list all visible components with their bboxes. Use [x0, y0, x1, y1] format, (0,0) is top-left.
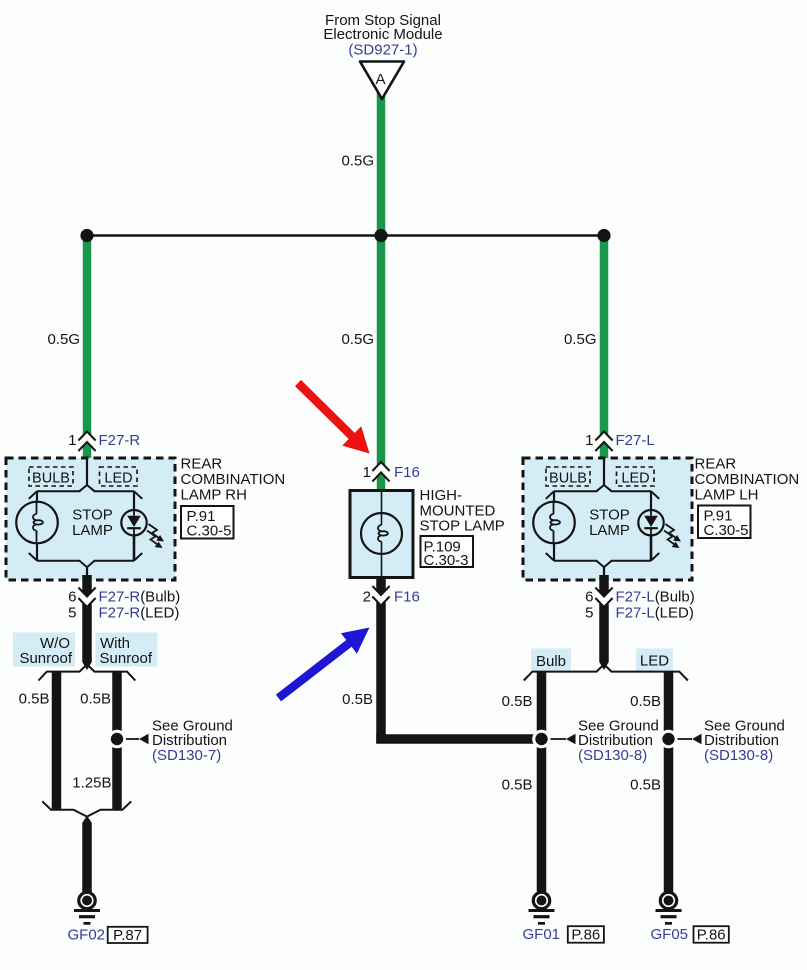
svg-text:BULB: BULB	[549, 471, 587, 487]
svg-text:1: 1	[363, 464, 371, 481]
svg-text:0.5B: 0.5B	[80, 691, 111, 708]
option box LED (RH)	[100, 467, 138, 486]
component box: REAR COMBINATION LAMP RH (dashed)	[6, 458, 175, 580]
connector pin 2 of F16 (chevron symbol)	[372, 586, 389, 606]
wire: thin join outline (RH ground merge)	[42, 801, 131, 816]
svg-text:C.30-5: C.30-5	[704, 522, 749, 539]
callout arrow to ground distribution SD130-8 (led)	[678, 734, 702, 744]
wire: entry lead inside lamp RH	[86, 459, 88, 485]
wire: led branch lower lead (LH)	[650, 535, 653, 560]
wire: 0.5B black output of lamp LH	[599, 575, 609, 662]
option box BULB (RH)	[29, 467, 73, 486]
wire: bulb branch lower lead (LH)	[553, 543, 555, 561]
label: From Stop Signal Electronic Module	[323, 12, 442, 59]
svg-text:0.5B: 0.5B	[502, 693, 533, 710]
svg-text:(SD130-7): (SD130-7)	[152, 747, 221, 764]
wire: 0.5B black output of lamp RH	[82, 575, 92, 662]
svg-text:REAR: REAR	[181, 456, 223, 473]
wire: 0.5G green feed from module triangle down to bus	[377, 92, 386, 491]
svg-text:F27-L(Bulb): F27-L(Bulb)	[616, 589, 695, 606]
svg-text:0.5G: 0.5G	[341, 153, 374, 170]
option label Bulb	[531, 649, 571, 671]
wire: internal split to bulb and led branches (LH)	[546, 485, 659, 499]
svg-text:LAMP: LAMP	[72, 522, 113, 539]
wire: internal join of bulb and led branches (RH)	[29, 553, 142, 567]
svg-text:Electronic Module: Electronic Module	[323, 26, 442, 43]
svg-text:F27-L(LED): F27-L(LED)	[616, 605, 694, 622]
wire: entry lead inside lamp LH	[603, 459, 605, 485]
wire: exit lead lamp RH	[86, 567, 88, 576]
svg-text:REAR: REAR	[695, 456, 737, 473]
svg-text:C.30-5: C.30-5	[187, 523, 232, 540]
ground GF02	[74, 892, 100, 924]
svg-text:F27-R(LED): F27-R(LED)	[99, 605, 180, 622]
svg-text:GF02: GF02	[67, 927, 105, 944]
blue callout arrow pointing to 0.5B wire	[276, 628, 370, 702]
wire: 0.5B black output of high-mounted stop lamp	[376, 578, 386, 744]
label: See Ground Distribution (SD130-7)	[152, 718, 233, 765]
svg-text:COMBINATION: COMBINATION	[695, 471, 800, 488]
wire: merged ground wire tip	[82, 816, 92, 824]
LED light emission arrows (RH)	[147, 524, 164, 548]
reference box P.86 (GF01)	[568, 926, 604, 943]
svg-text:LED: LED	[640, 653, 669, 670]
svg-text:LAMP: LAMP	[589, 522, 630, 539]
svg-text:F27-R(Bulb): F27-R(Bulb)	[99, 589, 181, 606]
reference box P.91 C.30-5 (LH)	[698, 506, 751, 540]
svg-text:0.5B: 0.5B	[342, 691, 373, 708]
wire: 0.5G green, bus to rear combination lamp RH	[83, 236, 92, 460]
reference box P.86 (GF05)	[694, 926, 729, 943]
node: bus junction right	[597, 229, 610, 242]
svg-text:COMBINATION: COMBINATION	[181, 471, 286, 488]
red callout arrow pointing to pin 1 F16	[295, 380, 370, 454]
svg-text:LAMP LH: LAMP LH	[695, 487, 759, 504]
wire: horizontal bus distributing stop signal	[87, 234, 604, 236]
wire: ground lead to GF02	[82, 823, 92, 893]
LED element (LH stop lamp)	[638, 510, 663, 535]
svg-text:1.25B: 1.25B	[72, 775, 111, 792]
wire: internal lead through high-mounted stop lamp	[381, 492, 383, 525]
bulb lamp element (high-mounted stop lamp)	[361, 513, 402, 554]
wire: 0.5B w/o sunroof branch	[52, 672, 62, 810]
svg-text:GF01: GF01	[522, 926, 560, 943]
svg-text:1: 1	[68, 432, 76, 449]
svg-text:P.87: P.87	[113, 927, 142, 944]
node: ground distribution tap (bulb branch)	[532, 730, 551, 749]
svg-text:LED: LED	[104, 471, 132, 487]
reference box P.87	[108, 927, 148, 944]
svg-text:0.5G: 0.5G	[564, 331, 597, 348]
wire: bulb branch lower lead (RH)	[36, 543, 38, 561]
svg-text:0.5G: 0.5G	[341, 331, 374, 348]
node: bus junction middle	[374, 229, 387, 242]
svg-text:F27-L: F27-L	[616, 432, 655, 449]
svg-text:LAMP RH: LAMP RH	[181, 487, 247, 504]
bulb lamp element (LH stop lamp)	[533, 502, 575, 544]
callout arrow to ground distribution SD130-7	[126, 734, 149, 744]
svg-text:STOP LAMP: STOP LAMP	[420, 518, 505, 535]
svg-text:Sunroof: Sunroof	[100, 650, 153, 667]
svg-text:P.86: P.86	[697, 927, 726, 944]
connector pin 1 of F27-L (chevron symbol)	[595, 432, 612, 452]
reference box P.91 C.30-5 (RH)	[181, 506, 234, 540]
svg-text:0.5G: 0.5G	[47, 331, 80, 348]
svg-text:LED: LED	[621, 471, 649, 487]
svg-text:5: 5	[585, 605, 593, 622]
svg-text:STOP: STOP	[589, 507, 630, 524]
label: See Ground Distribution (SD130-8) bulb	[578, 718, 659, 765]
label: REAR COMBINATION LAMP RH	[181, 456, 286, 504]
svg-text:(SD927-1): (SD927-1)	[348, 42, 417, 59]
svg-text:(SD130-8): (SD130-8)	[578, 747, 647, 764]
svg-text:5: 5	[68, 605, 76, 622]
svg-text:0.5B: 0.5B	[630, 693, 661, 710]
wire: led branch lower lead (RH)	[133, 535, 136, 560]
svg-text:1: 1	[585, 432, 593, 449]
svg-text:0.5B: 0.5B	[630, 777, 661, 794]
svg-text:6: 6	[68, 589, 76, 606]
wire: led branch upper lead (RH)	[133, 491, 135, 510]
LED light emission arrows (LH)	[664, 524, 681, 548]
connector pins 6/5 of F27-L (chevron symbol)	[595, 588, 612, 608]
option box BULB (LH)	[546, 467, 590, 486]
label: See Ground Distribution (SD130-8) led	[704, 718, 785, 765]
wire: fork tip of 0.5B wire (LH ground split)	[599, 662, 609, 670]
svg-text:Bulb: Bulb	[536, 653, 566, 670]
svg-text:0.5B: 0.5B	[19, 691, 50, 708]
wire: 0.5B led ground branch	[664, 672, 674, 892]
wire: 0.5B with sunroof branch upper	[112, 672, 122, 810]
wire: exit lead lamp LH	[603, 567, 605, 576]
connector pin 1 of F27-R (chevron symbol)	[78, 432, 95, 452]
label: HIGH-MOUNTED STOP LAMP	[420, 487, 505, 535]
option label W/O Sunroof	[13, 633, 75, 668]
wire: thin fork outline (RH ground split)	[39, 664, 136, 680]
wire: 0.5B horizontal run to bulb ground branch	[376, 734, 541, 744]
svg-text:BULB: BULB	[32, 471, 70, 487]
svg-text:F16: F16	[394, 589, 420, 606]
bulb lamp element (RH stop lamp)	[16, 502, 58, 544]
connector pin 1 of F16 (chevron symbol)	[372, 462, 389, 482]
connector pins 6/5 of F27-R (chevron symbol)	[78, 588, 95, 608]
option label With Sunroof	[96, 633, 158, 668]
node: ground distribution tap (with sunroof branch)	[108, 730, 127, 749]
reference box P.109 C.30-3	[421, 536, 474, 569]
svg-text:F16: F16	[394, 464, 420, 481]
wire: fork tip of 0.5B wire (RH ground split)	[82, 662, 92, 670]
svg-text:2: 2	[363, 589, 371, 606]
ground GF05	[656, 892, 682, 924]
off-page connector triangle A (from stop signal electronic module)	[360, 62, 404, 100]
svg-text:C.30-3: C.30-3	[424, 552, 469, 569]
svg-text:(SD130-8): (SD130-8)	[704, 747, 773, 764]
svg-text:6: 6	[585, 589, 593, 606]
wire: bulb branch upper lead (RH)	[36, 491, 38, 503]
component box: REAR COMBINATION LAMP LH (dashed)	[523, 458, 692, 580]
svg-text:Sunroof: Sunroof	[19, 650, 72, 667]
wire: internal split to bulb and led branches (RH)	[29, 485, 142, 499]
svg-text:STOP: STOP	[72, 507, 113, 524]
component box: HIGH-MOUNTED STOP LAMP	[350, 491, 413, 578]
ground GF01	[529, 892, 555, 924]
wire: 0.5G green, bus to rear combination lamp LH	[600, 236, 609, 460]
svg-text:F27-R: F27-R	[99, 432, 141, 449]
wire: internal join of bulb and led branches (LH)	[546, 553, 659, 567]
label: REAR COMBINATION LAMP LH	[695, 456, 800, 504]
node: bus junction left	[80, 229, 93, 242]
wire: led branch upper lead (LH)	[650, 491, 652, 510]
option label LED	[636, 649, 673, 671]
LED element (RH stop lamp)	[121, 510, 146, 535]
svg-text:GF05: GF05	[650, 926, 688, 943]
node: ground distribution tap (led branch)	[659, 730, 678, 749]
wire: thin fork outline (LH ground split)	[524, 664, 688, 680]
wire: 0.5B bulb ground branch	[537, 672, 547, 892]
svg-text:P.86: P.86	[571, 927, 600, 944]
svg-text:0.5B: 0.5B	[502, 777, 533, 794]
wire: bulb branch upper lead (LH)	[553, 491, 555, 503]
svg-text:A: A	[375, 71, 385, 88]
option box LED (LH)	[617, 467, 655, 486]
callout arrow to ground distribution SD130-8 (bulb)	[551, 734, 576, 744]
